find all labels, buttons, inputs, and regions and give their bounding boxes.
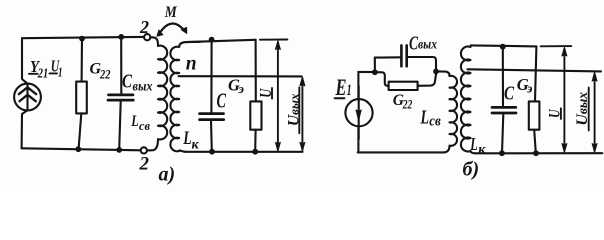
svg-text:св: св bbox=[139, 118, 150, 133]
voltage arrow U bbox=[277, 43, 279, 150]
capacitor Cvyh branch bottom wire bbox=[119, 101, 121, 149]
resistor G22 branch top wire bbox=[81, 38, 84, 82]
wire: G22 right lead bbox=[418, 74, 436, 86]
svg-text:Uвых: Uвых bbox=[286, 93, 303, 126]
capacitor C branch (b) top bbox=[502, 47, 504, 106]
svg-text:2: 2 bbox=[139, 17, 149, 37]
node dot C top (b) bbox=[500, 44, 506, 50]
wire: b bottom bbox=[358, 151, 444, 153]
node dot C top bbox=[209, 37, 215, 43]
EMF source E1 branch bbox=[357, 72, 359, 152]
wire: secondary top bbox=[186, 40, 256, 42]
node dot C bottom bbox=[209, 149, 215, 155]
wire: primary top bbox=[22, 37, 144, 38]
node dot G22 bottom bbox=[75, 146, 81, 152]
svg-text:а): а) bbox=[159, 163, 176, 185]
capacitor Cvyh plates bbox=[109, 94, 134, 97]
svg-text:э: э bbox=[238, 81, 245, 96]
node dot Ge bottom bbox=[252, 149, 258, 155]
tick for U arrow (b) bbox=[541, 45, 572, 47]
svg-text:вых: вых bbox=[418, 38, 437, 53]
capacitor Cvyh plates (b) bbox=[400, 45, 403, 66]
capacitor Cvyh branch top wire bbox=[120, 37, 122, 94]
svg-text:Uвых: Uвых bbox=[574, 92, 591, 126]
resistor Ge (b) bottom wire bbox=[534, 130, 536, 153]
svg-text:21: 21 bbox=[37, 67, 48, 82]
wire: Lsv top lead bbox=[436, 71, 450, 76]
svg-text:U: U bbox=[256, 88, 275, 98]
label Uvyh rotated bbox=[286, 93, 303, 126]
svg-text:E: E bbox=[335, 75, 347, 100]
wire: secondary right edge upper bbox=[255, 40, 257, 102]
svg-text:2: 2 bbox=[139, 154, 150, 175]
mutual inductance M arrow bbox=[160, 24, 184, 33]
label underline U rotated (b) bbox=[560, 108, 562, 119]
node dot Ge bottom (b) bbox=[533, 150, 539, 156]
wire: b secondary bottom bbox=[476, 152, 603, 154]
wire: b top-left bbox=[358, 71, 375, 73]
resistor Ge bottom wire bbox=[254, 130, 257, 152]
node dot Cvyh top bbox=[118, 34, 124, 40]
svg-text:C: C bbox=[122, 70, 132, 92]
svg-text:вых: вых bbox=[133, 79, 153, 94]
label Uvyh rotated (b) bbox=[574, 92, 591, 126]
wire: b right edge upper bbox=[535, 46, 536, 101]
wire: tap from Lk bbox=[179, 75, 302, 77]
wire: Cvyh left lead bbox=[375, 56, 400, 58]
svg-text:C: C bbox=[504, 83, 514, 105]
capacitor C branch bottom wire bbox=[210, 121, 213, 151]
label underline U1 bbox=[49, 72, 57, 74]
voltage arrow Uvyh bbox=[301, 79, 303, 150]
wire: b secondary top bbox=[471, 45, 536, 46]
label underline Y bbox=[29, 73, 38, 75]
label underline Uvyh (rotated) bbox=[298, 87, 300, 133]
capacitor C plates bbox=[200, 112, 224, 115]
svg-text:C: C bbox=[217, 89, 227, 113]
svg-text:к: к bbox=[478, 143, 486, 158]
svg-text:к: к bbox=[192, 137, 200, 152]
resistor Ge bbox=[250, 101, 261, 129]
voltage arrow Uvyh (b) bbox=[594, 74, 596, 151]
svg-text:L: L bbox=[131, 113, 139, 130]
svg-text:22: 22 bbox=[99, 67, 111, 82]
wire: primary left edge bottom segment bbox=[22, 110, 28, 148]
resistor G22 bbox=[76, 82, 87, 114]
wire: primary left edge top segment bbox=[22, 38, 27, 83]
wire: parallel block left riser bbox=[374, 58, 376, 73]
tick for U arrow bbox=[260, 39, 288, 41]
svg-text:M: M bbox=[164, 4, 177, 21]
inductor Lsv bbox=[147, 37, 167, 150]
capacitor C plates (b) bbox=[492, 106, 516, 109]
wire: secondary bottom bbox=[186, 151, 303, 153]
svg-text:L: L bbox=[183, 128, 192, 149]
wire: primary bottom bbox=[22, 148, 141, 150]
svg-text:э: э bbox=[526, 80, 533, 95]
inductor Lk with tap bbox=[170, 42, 200, 152]
capacitor C branch top wire bbox=[210, 40, 212, 112]
wire: Cvyh right lead bbox=[407, 57, 436, 69]
svg-text:U: U bbox=[547, 108, 564, 118]
resistor Ge (b) bbox=[529, 101, 540, 129]
svg-text:св: св bbox=[429, 114, 441, 130]
node dot right of parallel block bbox=[433, 69, 439, 75]
wire: b tap from Lk bbox=[468, 69, 602, 71]
E1 arrowhead down bbox=[356, 110, 361, 121]
voltage arrow U (b) bbox=[563, 49, 565, 151]
inductor Lsv (b) bbox=[444, 76, 458, 153]
svg-text:22: 22 bbox=[402, 97, 412, 111]
wire: G22 left lead bbox=[375, 72, 389, 86]
terminal 2 bottom bbox=[141, 147, 147, 153]
svg-text:1: 1 bbox=[58, 65, 63, 80]
resistor G22 (b) bbox=[389, 82, 418, 90]
svg-text:n: n bbox=[186, 54, 197, 75]
node dot G22 top bbox=[79, 36, 85, 42]
inductor Lk (b) with top lead bbox=[461, 45, 476, 153]
label underline E1 bbox=[335, 97, 345, 99]
capacitor C branch (b) bottom bbox=[502, 114, 503, 153]
node dot Cvyh bottom bbox=[116, 147, 122, 153]
svg-text:1: 1 bbox=[347, 82, 352, 99]
current source Y21U1 bbox=[14, 84, 41, 111]
node dot C bottom (b) bbox=[499, 150, 505, 156]
node dot left of parallel block bbox=[372, 69, 378, 75]
svg-text:L: L bbox=[470, 134, 478, 154]
label underline U (rotated, right side) bbox=[271, 88, 273, 99]
resistor G22 branch bottom wire bbox=[79, 113, 82, 149]
svg-text:б): б) bbox=[463, 158, 480, 180]
svg-text:L: L bbox=[420, 106, 429, 128]
label underline Uvyh rotated (b) bbox=[588, 88, 590, 131]
terminal 2 top bbox=[144, 34, 150, 40]
